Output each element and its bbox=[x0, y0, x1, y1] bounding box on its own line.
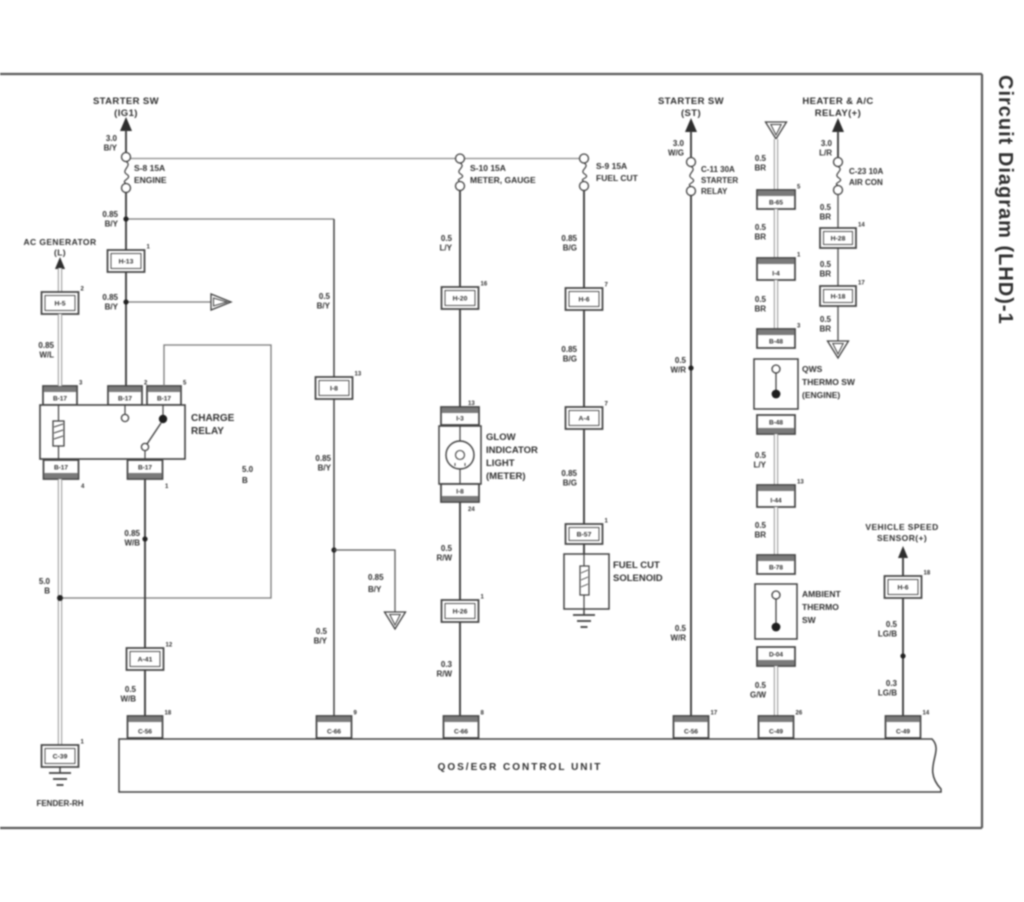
svg-text:W/L: W/L bbox=[39, 351, 54, 360]
svg-text:I-3: I-3 bbox=[456, 416, 464, 423]
svg-text:AC GENERATOR: AC GENERATOR bbox=[24, 237, 97, 247]
label 3.0 L/R bbox=[819, 139, 832, 158]
svg-text:H-6: H-6 bbox=[898, 585, 909, 592]
ground fuel cut solenoid bbox=[573, 609, 595, 627]
svg-text:AMBIENT: AMBIENT bbox=[802, 589, 842, 599]
svg-text:13: 13 bbox=[797, 480, 804, 486]
svg-text:5: 5 bbox=[183, 381, 187, 387]
svg-text:0.85: 0.85 bbox=[102, 210, 118, 219]
label 0.5 BR G1 bbox=[819, 203, 831, 222]
wire branch to down arrow bbox=[334, 550, 395, 612]
svg-text:17: 17 bbox=[711, 711, 718, 717]
svg-text:BR: BR bbox=[754, 164, 766, 173]
label 3.0 W/G bbox=[668, 139, 685, 158]
svg-text:SENSOR(+): SENSOR(+) bbox=[877, 533, 927, 543]
svg-text:THERMO: THERMO bbox=[802, 602, 839, 612]
label 3.0 B/Y bbox=[104, 134, 118, 153]
label 0.5 W/B bbox=[120, 685, 136, 704]
svg-text:BR: BR bbox=[819, 325, 831, 334]
wire E to control unit bbox=[690, 196, 692, 738]
junction branch to page arrow bbox=[331, 547, 336, 552]
svg-text:RELAY: RELAY bbox=[191, 426, 224, 437]
svg-text:W/B: W/B bbox=[124, 539, 140, 548]
svg-text:B/Y: B/Y bbox=[105, 303, 119, 312]
wire relay out to control unit bbox=[144, 479, 146, 737]
svg-text:QOS/EGR CONTROL UNIT: QOS/EGR CONTROL UNIT bbox=[438, 762, 603, 773]
label 0.85 B/Y branch bbox=[368, 573, 384, 594]
glow lamp pin 24 bbox=[468, 507, 475, 513]
page arrow down feed col F bbox=[766, 122, 787, 139]
connector I-8 bbox=[316, 372, 362, 400]
svg-text:BR: BR bbox=[754, 233, 766, 242]
svg-text:RELAY: RELAY bbox=[701, 187, 728, 196]
svg-text:5: 5 bbox=[797, 185, 801, 191]
svg-text:B/Y: B/Y bbox=[368, 585, 382, 594]
glow indicator light bottom connector I-8 bbox=[441, 484, 479, 502]
glow lamp pin 13 bbox=[468, 401, 475, 407]
glow indicator light top connector I-3 bbox=[441, 407, 479, 425]
svg-text:7: 7 bbox=[605, 402, 609, 408]
svg-text:B/Y: B/Y bbox=[318, 464, 332, 473]
svg-text:BR: BR bbox=[754, 305, 766, 314]
wire C fuse to glow light bbox=[459, 191, 461, 410]
svg-text:0.5: 0.5 bbox=[886, 620, 898, 629]
wire relay pin5 loop to ground bus bbox=[63, 345, 271, 598]
connector B-57 bbox=[566, 519, 609, 545]
svg-text:METER, GAUGE: METER, GAUGE bbox=[470, 175, 536, 185]
node AC GENERATOR (L) bbox=[24, 237, 97, 258]
label AMBIENT THERMO SW bbox=[802, 589, 842, 625]
label 0.5 W/R lower bbox=[670, 624, 686, 643]
connector B-17 relay top left bbox=[43, 381, 83, 406]
junction B at bus 219 bbox=[123, 216, 128, 221]
svg-text:0.5: 0.5 bbox=[755, 154, 767, 163]
junction A ground bus bbox=[57, 595, 63, 601]
svg-text:14: 14 bbox=[858, 223, 865, 229]
svg-text:STARTER: STARTER bbox=[701, 176, 738, 185]
connector D-04 bbox=[757, 647, 795, 666]
connector B-48 lower bbox=[757, 415, 795, 434]
arrow up to speed sensor bbox=[898, 546, 908, 576]
svg-text:B: B bbox=[44, 587, 50, 596]
svg-text:HEATER & A/C: HEATER & A/C bbox=[802, 96, 873, 107]
label 0.5 R/W bbox=[436, 544, 452, 563]
svg-text:0.5: 0.5 bbox=[755, 681, 767, 690]
label 0.3 LG/B bbox=[878, 679, 898, 698]
wire F B-65 to I-4 bbox=[774, 209, 778, 258]
connector B-17 relay bottom left bbox=[44, 460, 79, 479]
label S-9 15A FUEL CUT bbox=[596, 161, 639, 183]
svg-text:5.0: 5.0 bbox=[242, 465, 254, 474]
connector B-17 relay top middle bbox=[108, 381, 148, 406]
label FUEL CUT SOLENOID bbox=[613, 560, 663, 584]
svg-text:FUEL CUT: FUEL CUT bbox=[596, 173, 639, 183]
arrow up to heater relay bbox=[832, 118, 844, 157]
svg-text:VEHICLE SPEED: VEHICLE SPEED bbox=[865, 522, 938, 532]
label 0.5 BR 3 bbox=[754, 295, 766, 314]
svg-text:H-6: H-6 bbox=[579, 297, 590, 304]
svg-text:17: 17 bbox=[858, 281, 865, 287]
label 0.85 B/Y at 302 bbox=[102, 293, 118, 312]
label 0.5 B/Y lower bbox=[314, 627, 328, 646]
svg-text:0.5: 0.5 bbox=[820, 315, 832, 324]
svg-text:I-4: I-4 bbox=[772, 271, 780, 278]
svg-text:3.0: 3.0 bbox=[106, 134, 118, 143]
label 0.5 BR 4 bbox=[754, 521, 766, 540]
svg-text:G/W: G/W bbox=[750, 691, 766, 700]
connector A-4 bbox=[566, 402, 609, 430]
svg-text:A-41: A-41 bbox=[138, 657, 153, 664]
svg-text:0.85: 0.85 bbox=[368, 573, 384, 582]
splice col H bbox=[900, 653, 905, 658]
svg-text:18: 18 bbox=[924, 571, 931, 577]
label CHARGE RELAY bbox=[191, 413, 235, 437]
svg-text:2: 2 bbox=[81, 287, 85, 293]
label 0.85 B/G mid bbox=[561, 345, 577, 364]
svg-text:B-17: B-17 bbox=[54, 465, 68, 472]
svg-text:B-78: B-78 bbox=[769, 565, 783, 572]
svg-text:BR: BR bbox=[819, 213, 831, 222]
arrow up to AC generator bbox=[55, 257, 65, 269]
svg-text:0.5: 0.5 bbox=[755, 295, 767, 304]
label C-23 10A AIR CON bbox=[849, 167, 883, 187]
svg-text:0.5: 0.5 bbox=[675, 624, 687, 633]
connector A-41 bbox=[127, 643, 173, 671]
svg-text:8: 8 bbox=[481, 711, 485, 717]
svg-text:C-49: C-49 bbox=[769, 729, 783, 736]
svg-text:18: 18 bbox=[165, 711, 172, 717]
svg-text:1: 1 bbox=[797, 253, 801, 259]
svg-text:C-49: C-49 bbox=[896, 729, 910, 736]
junction B at 302 bbox=[123, 299, 128, 304]
connector C-56 bottom col E bbox=[674, 711, 718, 739]
svg-text:GLOW: GLOW bbox=[486, 432, 516, 443]
svg-text:0.85: 0.85 bbox=[315, 454, 331, 463]
connector I-44 bbox=[757, 480, 804, 508]
connector C-66 bottom col C bbox=[444, 711, 485, 739]
label 0.5 LG/B bbox=[878, 620, 898, 639]
relay switch contacts bbox=[121, 405, 167, 459]
connector H-6 col H bbox=[885, 571, 931, 599]
svg-text:B-48: B-48 bbox=[769, 339, 783, 346]
QOS/EGR control unit U2 bbox=[119, 739, 941, 792]
svg-text:L/Y: L/Y bbox=[754, 461, 767, 470]
svg-text:0.5: 0.5 bbox=[755, 223, 767, 232]
wire fuse bus S-8 to S-10 to S-9 bbox=[130, 158, 580, 160]
page title Circuit Diagram (LHD)-1 bbox=[994, 75, 1016, 325]
label GLOW INDICATOR LIGHT (METER) bbox=[486, 432, 538, 482]
splice 0.5 W/R bbox=[688, 365, 693, 370]
svg-text:26: 26 bbox=[796, 711, 803, 717]
node HEATER & A/C RELAY bbox=[802, 96, 873, 119]
svg-text:B-65: B-65 bbox=[769, 200, 783, 207]
svg-text:S-8 15A: S-8 15A bbox=[134, 163, 165, 173]
svg-text:C-11 30A: C-11 30A bbox=[701, 165, 735, 174]
page arrow down col G bbox=[828, 341, 849, 358]
connector B-17 relay top right bbox=[147, 381, 187, 406]
connector B-65 bbox=[757, 185, 801, 210]
svg-text:(ST): (ST) bbox=[681, 108, 701, 119]
svg-text:D-04: D-04 bbox=[769, 652, 783, 659]
wire F I-4 to B-48 bbox=[774, 280, 778, 329]
arrow up to starter switch bbox=[120, 117, 132, 153]
wire B fuse to relay bbox=[125, 193, 127, 387]
connector H-13 bbox=[108, 245, 151, 273]
node VEHICLE SPEED SENSOR bbox=[865, 522, 938, 543]
svg-text:B/Y: B/Y bbox=[105, 220, 119, 229]
svg-text:0.85: 0.85 bbox=[561, 234, 577, 243]
svg-text:STARTER SW: STARTER SW bbox=[658, 96, 724, 107]
svg-text:0.5: 0.5 bbox=[675, 356, 687, 365]
node STARTER SW (IG1) bbox=[93, 96, 159, 119]
svg-text:0.5: 0.5 bbox=[820, 260, 832, 269]
svg-text:B-17: B-17 bbox=[53, 396, 67, 403]
svg-text:0.5: 0.5 bbox=[441, 234, 453, 243]
wire G to page arrow bbox=[837, 195, 839, 342]
svg-text:L/R: L/R bbox=[819, 149, 832, 158]
svg-text:(METER): (METER) bbox=[486, 471, 526, 482]
wire I-8 column bbox=[333, 219, 335, 737]
svg-text:Circuit Diagram (LHD)-1: Circuit Diagram (LHD)-1 bbox=[994, 75, 1016, 325]
svg-text:H-20: H-20 bbox=[453, 296, 468, 303]
connector H-20 bbox=[442, 282, 488, 310]
wire F arrow to B-65 bbox=[774, 139, 778, 190]
svg-text:C-56: C-56 bbox=[138, 729, 152, 736]
svg-text:SW: SW bbox=[802, 615, 817, 625]
svg-text:B-17: B-17 bbox=[118, 396, 132, 403]
svg-text:0.5: 0.5 bbox=[820, 203, 832, 212]
svg-text:THERMO SW: THERMO SW bbox=[802, 377, 856, 387]
wire A relay to ground bbox=[58, 479, 62, 746]
label 0.85 B/G upper bbox=[561, 234, 577, 253]
connector B-78 bbox=[757, 555, 795, 574]
svg-text:0.5: 0.5 bbox=[755, 451, 767, 460]
svg-text:0.85: 0.85 bbox=[561, 469, 577, 478]
svg-text:RELAY(+): RELAY(+) bbox=[815, 108, 861, 119]
svg-text:R/W: R/W bbox=[436, 670, 452, 679]
ground fender bbox=[49, 767, 71, 785]
svg-text:C-66: C-66 bbox=[454, 729, 468, 736]
svg-text:0.85: 0.85 bbox=[124, 529, 140, 538]
svg-text:CHARGE: CHARGE bbox=[191, 413, 235, 424]
svg-text:4: 4 bbox=[81, 484, 85, 490]
svg-text:5.0: 5.0 bbox=[39, 577, 51, 586]
svg-text:0.5: 0.5 bbox=[441, 544, 453, 553]
fuse S-8 15A ENGINE bbox=[122, 153, 131, 193]
svg-text:7: 7 bbox=[605, 283, 609, 289]
node STARTER SW (ST) bbox=[658, 96, 724, 119]
svg-text:ENGINE: ENGINE bbox=[134, 175, 167, 185]
svg-text:R/W: R/W bbox=[436, 554, 452, 563]
wire D fuse to solenoid bbox=[583, 191, 585, 557]
wire branch B junction to I-8 column bbox=[126, 218, 334, 220]
svg-text:W/G: W/G bbox=[668, 149, 684, 158]
svg-text:AIR CON: AIR CON bbox=[849, 178, 883, 187]
connector H-18 bbox=[820, 281, 865, 307]
fuse C-23 10A AIR CON bbox=[834, 158, 843, 195]
svg-text:1: 1 bbox=[81, 740, 85, 746]
svg-text:3.0: 3.0 bbox=[821, 139, 833, 148]
svg-text:H-28: H-28 bbox=[831, 236, 846, 243]
svg-text:24: 24 bbox=[468, 507, 475, 513]
svg-text:B/G: B/G bbox=[563, 244, 577, 253]
page arrow down branch bbox=[385, 612, 406, 629]
svg-text:3: 3 bbox=[79, 381, 83, 387]
svg-text:C-23 10A: C-23 10A bbox=[849, 167, 883, 176]
connector H-6 col D bbox=[566, 283, 609, 311]
svg-text:B/Y: B/Y bbox=[314, 637, 328, 646]
ambient thermo switch S2 bbox=[755, 584, 797, 639]
label 0.5 G/W bbox=[750, 681, 767, 700]
connector C-49 bottom col F bbox=[759, 711, 803, 739]
svg-text:0.5: 0.5 bbox=[319, 292, 331, 301]
connector C-66 bottom col X bbox=[317, 711, 358, 739]
relay coil bbox=[53, 405, 64, 459]
svg-text:C-56: C-56 bbox=[684, 729, 698, 736]
svg-text:BR: BR bbox=[819, 270, 831, 279]
svg-text:LG/B: LG/B bbox=[878, 689, 897, 698]
splice 0.85 W/B bbox=[142, 536, 147, 541]
label 0.85 B/Y bbox=[102, 210, 118, 229]
svg-text:13: 13 bbox=[355, 372, 362, 378]
svg-text:12: 12 bbox=[166, 643, 173, 649]
svg-text:0.5: 0.5 bbox=[316, 627, 328, 636]
svg-text:I-8: I-8 bbox=[456, 489, 464, 496]
label 0.5 BR 1 bbox=[754, 154, 766, 173]
label 0.5 L/Y col F bbox=[754, 451, 767, 470]
svg-text:0.3: 0.3 bbox=[441, 660, 453, 669]
svg-text:I-44: I-44 bbox=[770, 498, 782, 505]
svg-text:H-13: H-13 bbox=[119, 259, 134, 266]
connector H-28 bbox=[820, 223, 865, 249]
fusible link C-11 30A STARTER RELAY bbox=[687, 158, 696, 196]
connector C-39 bbox=[42, 740, 85, 768]
label 0.5 BR G2 bbox=[819, 260, 831, 279]
svg-text:1: 1 bbox=[147, 245, 151, 251]
label 0.85 W/B bbox=[124, 529, 140, 548]
svg-text:SOLENOID: SOLENOID bbox=[613, 573, 663, 584]
svg-text:A-4: A-4 bbox=[579, 416, 590, 423]
QWS thermo switch S1 bbox=[754, 359, 798, 409]
svg-text:QWS: QWS bbox=[802, 364, 823, 374]
svg-text:W/R: W/R bbox=[670, 366, 686, 375]
svg-text:16: 16 bbox=[481, 282, 488, 288]
pin 4 relay bottom left bbox=[81, 484, 85, 490]
svg-text:FENDER-RH: FENDER-RH bbox=[36, 799, 83, 808]
svg-text:14: 14 bbox=[923, 711, 930, 717]
svg-text:9: 9 bbox=[354, 711, 358, 717]
svg-text:L/Y: L/Y bbox=[440, 244, 453, 253]
fuel cut solenoid L2 bbox=[564, 554, 609, 609]
svg-text:LG/B: LG/B bbox=[878, 630, 897, 639]
label QWS THERMO SW (ENGINE) bbox=[802, 364, 856, 400]
svg-text:(L): (L) bbox=[54, 248, 66, 258]
svg-text:LIGHT: LIGHT bbox=[486, 458, 515, 469]
label S-8 15A ENGINE bbox=[134, 163, 167, 185]
connector B-48 upper bbox=[757, 324, 801, 349]
svg-text:1: 1 bbox=[605, 519, 609, 525]
svg-text:0.85: 0.85 bbox=[38, 341, 54, 350]
svg-text:S-10 15A: S-10 15A bbox=[470, 163, 506, 173]
svg-text:B/Y: B/Y bbox=[104, 144, 118, 153]
connector B-17 relay bottom right bbox=[128, 460, 163, 479]
svg-text:B: B bbox=[242, 476, 248, 485]
label S-10 15A METER GAUGE bbox=[470, 163, 536, 185]
svg-text:1: 1 bbox=[481, 595, 485, 601]
label 0.85 B/G lower bbox=[561, 469, 577, 488]
label 5.0 B col A bbox=[39, 577, 51, 596]
label 0.5 BR 2 bbox=[754, 223, 766, 242]
svg-text:BR: BR bbox=[754, 531, 766, 540]
svg-text:B-17: B-17 bbox=[138, 465, 152, 472]
wire F B-48 to I-44 bbox=[774, 434, 778, 485]
svg-text:0.5: 0.5 bbox=[755, 521, 767, 530]
svg-text:H-26: H-26 bbox=[453, 609, 468, 616]
fuse S-10 15A METER GAUGE bbox=[456, 154, 465, 191]
label 0.85 W/L bbox=[38, 341, 54, 360]
svg-text:0.5: 0.5 bbox=[125, 685, 137, 694]
connector H-26 bbox=[442, 595, 485, 623]
svg-text:STARTER SW: STARTER SW bbox=[93, 96, 159, 107]
svg-text:1: 1 bbox=[165, 484, 169, 490]
svg-text:B-48: B-48 bbox=[769, 420, 783, 427]
pin 1 relay bottom right bbox=[165, 484, 169, 490]
svg-text:0.85: 0.85 bbox=[102, 293, 118, 302]
svg-text:3: 3 bbox=[797, 324, 801, 330]
page arrow right bbox=[211, 294, 231, 310]
wire A arrow to H-5 bbox=[58, 268, 62, 292]
wire A H-5 to relay bbox=[58, 314, 62, 386]
svg-text:W/B: W/B bbox=[120, 695, 136, 704]
label C-11 30A STARTER RELAY bbox=[701, 165, 738, 196]
svg-text:13: 13 bbox=[468, 401, 475, 407]
svg-text:INDICATOR: INDICATOR bbox=[486, 445, 538, 456]
svg-text:B-17: B-17 bbox=[157, 396, 171, 403]
svg-text:0.3: 0.3 bbox=[886, 679, 898, 688]
charge relay U1 body bbox=[40, 405, 185, 459]
svg-text:C-39: C-39 bbox=[53, 754, 68, 761]
label 0.5 B/Y upper bbox=[317, 292, 331, 311]
svg-text:FUEL CUT: FUEL CUT bbox=[613, 560, 660, 571]
label 0.5 L/Y bbox=[440, 234, 453, 253]
label 0.5 BR G3 bbox=[819, 315, 831, 334]
wire to page arrow bbox=[126, 301, 211, 303]
svg-text:B/G: B/G bbox=[563, 479, 577, 488]
svg-text:C-66: C-66 bbox=[327, 729, 341, 736]
label 0.85 B/Y mid bbox=[315, 454, 331, 473]
label FENDER-RH bbox=[36, 799, 83, 808]
connector C-49 bottom col H bbox=[886, 711, 930, 739]
svg-text:W/R: W/R bbox=[670, 634, 686, 643]
svg-text:B/G: B/G bbox=[563, 355, 577, 364]
svg-text:0.85: 0.85 bbox=[561, 345, 577, 354]
svg-text:S-9 15A: S-9 15A bbox=[596, 161, 627, 171]
connector H-5 bbox=[42, 287, 85, 315]
svg-text:3.0: 3.0 bbox=[673, 139, 685, 148]
connector I-4 bbox=[757, 253, 801, 281]
svg-text:I-8: I-8 bbox=[330, 386, 338, 393]
wire C glow to control unit bbox=[459, 502, 461, 737]
svg-text:H-5: H-5 bbox=[55, 301, 66, 308]
wire H to control unit bbox=[902, 598, 904, 737]
fuse S-9 15A FUEL CUT bbox=[580, 154, 589, 191]
connector C-56 bottom col B bbox=[128, 711, 172, 739]
wire F I-44 to B-78 bbox=[774, 507, 778, 555]
glow indicator light L1 bbox=[439, 426, 481, 484]
label 0.3 R/W bbox=[436, 660, 452, 679]
svg-text:B/Y: B/Y bbox=[317, 302, 331, 311]
label 5.0 B loop bbox=[242, 465, 254, 485]
